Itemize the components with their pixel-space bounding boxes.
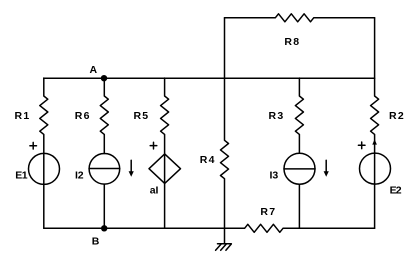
svg-text:A: A xyxy=(90,64,98,76)
svg-text:E1: E1 xyxy=(15,170,28,182)
svg-text:R3: R3 xyxy=(269,110,284,122)
svg-text:R2: R2 xyxy=(389,110,404,122)
svg-text:R5: R5 xyxy=(133,110,148,122)
svg-text:R1: R1 xyxy=(15,110,30,122)
svg-text:E2: E2 xyxy=(390,184,402,196)
svg-text:B: B xyxy=(92,236,100,248)
svg-text:R4: R4 xyxy=(200,154,215,166)
svg-text:R8: R8 xyxy=(284,36,299,48)
svg-text:R7: R7 xyxy=(260,206,275,218)
svg-text:I3: I3 xyxy=(270,170,279,182)
svg-text:R6: R6 xyxy=(75,110,90,122)
svg-text:I2: I2 xyxy=(75,170,84,182)
svg-text:aI: aI xyxy=(150,185,159,197)
